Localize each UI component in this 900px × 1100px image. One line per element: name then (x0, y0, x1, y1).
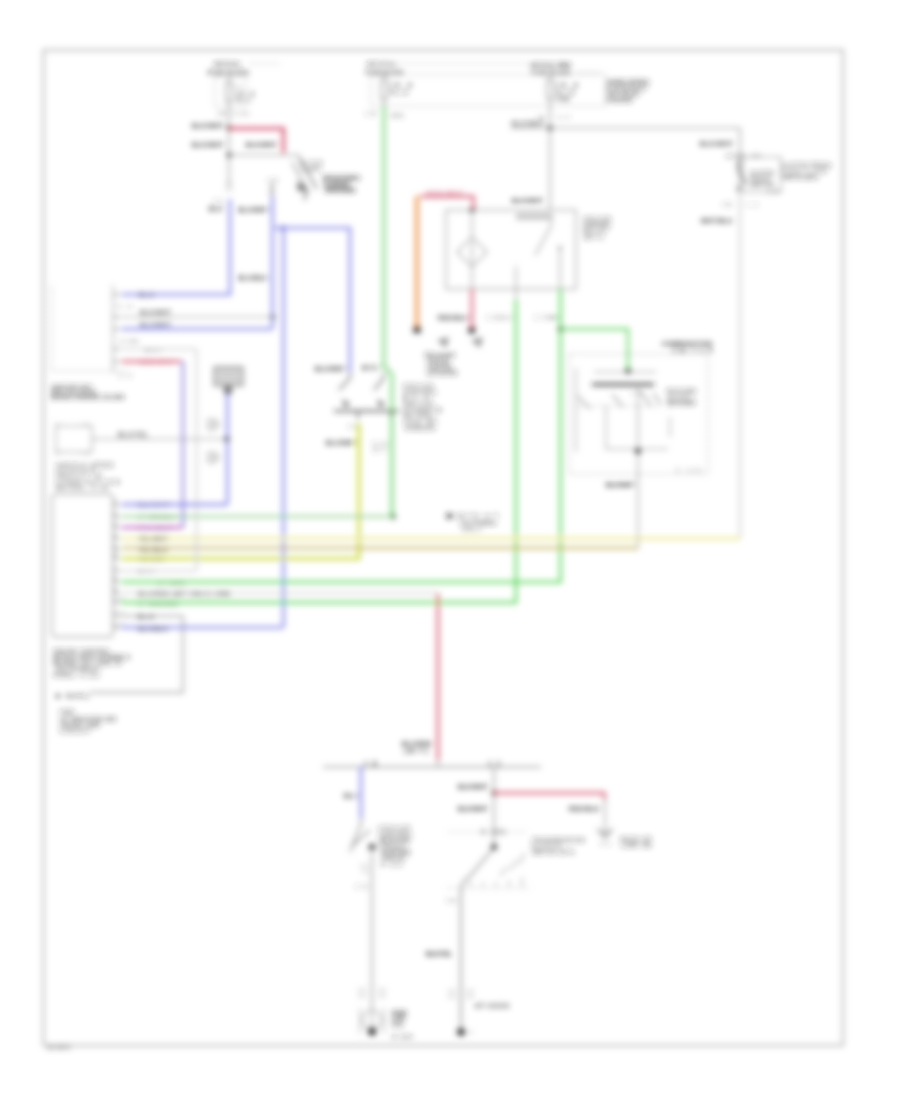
svg-text:BLK/WHT: BLK/WHT (700, 142, 733, 148)
comb switch positions dashed line (578, 405, 662, 407)
wire BLU/WHT row pin1 (122, 503, 227, 506)
junction node relay top (470, 208, 475, 213)
svg-text:BLK/WHT: BLK/WHT (192, 124, 224, 130)
svg-text:PANEL, C-111: PANEL, C-111 (53, 673, 99, 679)
svg-text:COMBINATION: COMBINATION (56, 480, 119, 486)
wire BLU/BLK row pin12 (122, 626, 283, 629)
wire BLU drop left (360, 767, 363, 818)
main switch arrows (342, 399, 351, 408)
wire drop right from bus (493, 767, 495, 846)
svg-text:C-12: C-12 (373, 441, 388, 447)
svg-text:G-204: G-204 (392, 1035, 412, 1041)
relay switch contact (535, 220, 551, 255)
wire PPL/WHT row pin3 (122, 526, 183, 528)
svg-text:1: 1 (114, 499, 117, 505)
wire WHT vertical down (196, 349, 198, 571)
svg-text:BLK/WHT: BLK/WHT (458, 785, 488, 791)
svg-text:BLK/WHT: BLK/WHT (458, 807, 488, 813)
lamp bulb symbol (360, 1008, 384, 1034)
wire BLU from diode pack down (122, 394, 228, 505)
svg-text:BLK: BLK (138, 615, 155, 621)
junction node on F3 wire (548, 126, 553, 131)
svg-text:HOT AT ALL: HOT AT ALL (214, 62, 241, 68)
module pin column ticks (113, 505, 121, 628)
comb switch top rail (594, 371, 656, 373)
svg-text:WHT: WHT (145, 348, 162, 354)
svg-text:5: 5 (114, 544, 117, 550)
comb switch contact 3 (641, 392, 651, 406)
junction node red branch bottom (492, 791, 497, 796)
wire from fuse F3 down to relay (549, 106, 551, 210)
inline ticks (360, 866, 368, 872)
junction node green branch (558, 326, 563, 331)
comb switch stub right (669, 417, 671, 437)
svg-text:BLU: BLU (209, 207, 223, 213)
svg-text:BLU/WHT: BLU/WHT (140, 323, 171, 329)
relay connector shading (516, 213, 553, 220)
wire YEL down from main switch (122, 424, 359, 559)
svg-text:BEHIND STEERING COLUMN: BEHIND STEERING COLUMN (51, 395, 124, 401)
relay coil L1 (457, 210, 487, 289)
svg-text:FUSE: FUSE (556, 97, 571, 103)
comb switch common bar (592, 383, 654, 386)
wire BLU/BLK long vertical to module (282, 228, 285, 628)
dotted lead F3 right (576, 72, 601, 74)
relay pin stub middle (515, 289, 517, 300)
svg-text:3G: 3G (723, 202, 732, 208)
svg-text:BLU/RED (M/T ONLY) 1998: BLU/RED (M/T ONLY) 1998 (138, 592, 231, 598)
wire WHT row pin7 (122, 570, 196, 572)
ground symbol right (597, 829, 613, 838)
inline connector lamp wire (358, 990, 386, 996)
svg-text:BLK/YEL: BLK/YEL (426, 952, 452, 958)
svg-text:SET/COAST: SET/COAST (667, 401, 696, 407)
svg-text:BLU/BLK: BLU/BLK (238, 276, 269, 282)
svg-text:BLU: BLU (344, 794, 358, 800)
wire WHT down from clutch switch (739, 192, 741, 538)
wire PPL vertical (182, 362, 185, 528)
junction node blue branch (280, 225, 285, 230)
dotted lead F2-F3 (385, 63, 530, 65)
main switch left contact (339, 372, 350, 390)
fuse F2 symbol (381, 75, 387, 106)
left connector bus (112, 285, 114, 373)
wire WHT row (122, 348, 197, 350)
svg-text:SWITCH: SWITCH (750, 183, 774, 189)
inhibitor selected contact (470, 850, 492, 876)
wire RED/GRN branch to stop light switch (229, 129, 284, 154)
wire YEL/WHT row to module (122, 537, 741, 540)
svg-text:BLU: BLU (139, 293, 154, 299)
svg-text:C-2: C-2 (119, 373, 131, 379)
comb switch L wire (606, 406, 668, 449)
svg-text:2C: 2C (538, 115, 546, 121)
cruise control module box (52, 494, 113, 637)
junction node stop light switch (227, 153, 232, 158)
wire down from AT indicator (371, 852, 373, 1006)
dotted lead F1 (249, 63, 279, 65)
svg-text:GRN: GRN (547, 315, 559, 321)
switch glyph below orange node (437, 337, 449, 348)
wire from fuse F1 down (228, 107, 230, 183)
wire from speed sensor (92, 438, 226, 440)
svg-text:12-34-5: 12-34-5 (47, 1045, 70, 1051)
pin at stop light output (271, 184, 273, 197)
wire down to clutch switch (739, 128, 741, 192)
combination switch dashed box (569, 354, 708, 474)
svg-text:BLK/WHT: BLK/WHT (512, 122, 544, 128)
svg-text:BLK/WHT: BLK/WHT (512, 199, 543, 205)
node RED end (469, 327, 476, 334)
relay contact dot (558, 246, 561, 249)
svg-text:COMBINATION: COMBINATION (662, 342, 712, 348)
svg-text:SWITCH (M/T): SWITCH (M/T) (782, 175, 818, 181)
junction node comb switch input (625, 368, 631, 374)
wire BLU/WHT row (122, 328, 272, 331)
vehicle speed sensor box (56, 426, 92, 452)
svg-text:No.12: No.12 (390, 90, 408, 96)
svg-text:WHT/BLU: WHT/BLU (701, 219, 733, 225)
wire BLK/WHT row to junction (122, 316, 273, 318)
main switch common bar (334, 410, 399, 412)
wire WHT row pin9 (122, 592, 438, 594)
wire GRN branch to combination switch (561, 329, 629, 370)
connector pins below F1 wire (226, 184, 232, 189)
comb switch output wire (637, 386, 639, 475)
wire RED/WHT into relay (420, 197, 474, 211)
wire BLU/WHT down from stop light switch (271, 197, 274, 329)
svg-text:C-111: C-111 (381, 862, 402, 868)
svg-text:2F 4: 2F 4 (373, 447, 386, 453)
ground tick (467, 1031, 473, 1033)
wire GRN from fuse F2 down to main switch (384, 106, 392, 516)
svg-text:BLU/BLK: BLU/BLK (138, 627, 169, 633)
comb switch contact 1 (578, 396, 590, 409)
pin tick red to bus (437, 760, 439, 767)
switch glyph below red node (471, 337, 483, 348)
svg-text:FWD: FWD (60, 710, 74, 716)
svg-text:BLK/WHT: BLK/WHT (192, 143, 224, 149)
inhibitor position stubs (470, 877, 522, 887)
svg-text:BLU/WHT: BLU/WHT (315, 367, 346, 373)
clutch switch box (743, 157, 781, 192)
comb switch left leg (575, 368, 577, 452)
svg-text:1D: 1D (268, 178, 278, 184)
svg-text:C-301: C-301 (481, 829, 506, 836)
wire RED/WHT row (122, 360, 182, 362)
svg-text:SWITCH (A/T): SWITCH (A/T) (532, 850, 574, 856)
svg-text:RESUME: RESUME (667, 389, 697, 395)
relay pin RED/BLK down (471, 289, 473, 327)
main switch right contact (374, 372, 384, 390)
svg-text:BLK/WHT: BLK/WHT (606, 483, 635, 489)
svg-text:BRAKE PRESSED): BRAKE PRESSED) (325, 188, 355, 194)
svg-text:C-9: C-9 (118, 304, 131, 310)
svg-text:C-106: C-106 (120, 339, 138, 345)
wire YEL/BLK row to module (122, 547, 639, 550)
svg-text:HOT AT ALL TIMES: HOT AT ALL TIMES (530, 63, 572, 69)
wire BLU branch to main switch (275, 228, 350, 372)
svg-text:LIGHT: LIGHT (301, 167, 321, 173)
lamp ground node (368, 1027, 376, 1035)
svg-text:2: 2 (114, 511, 117, 517)
fuse block F1 dashed box (215, 76, 246, 107)
ground wire BLK (90, 616, 183, 693)
svg-text:1C: 1C (214, 199, 224, 205)
note arrow on pin2 wire (447, 513, 455, 519)
svg-text:LT GRN/RED: LT GRN/RED (138, 602, 178, 608)
wire ORN down (415, 196, 419, 328)
diode pack body (214, 367, 243, 386)
svg-text:LAMP SW: LAMP SW (621, 843, 651, 849)
relay switch output stub (559, 250, 561, 289)
svg-text:WHT: WHT (362, 366, 381, 372)
clutch switch body (738, 160, 747, 192)
svg-text:FUSE BLOCK: FUSE BLOCK (208, 71, 250, 77)
wire RED long vertical to bottom section (437, 594, 440, 761)
svg-text:BLU/YEL: BLU/YEL (118, 433, 148, 439)
svg-text:ACTUATOR: ACTUATOR (427, 371, 457, 377)
twist symbol upper (206, 419, 220, 431)
main switch pin stubs below (358, 411, 391, 420)
AT indicator contact node (369, 844, 376, 851)
diode pack striped connector (213, 368, 244, 384)
svg-text:BLU/WHT: BLU/WHT (326, 441, 357, 447)
inline connector ticks bottom wire (448, 991, 474, 997)
comb switch wire down (637, 475, 639, 548)
wire LT GRN/BLK down from main switch (391, 418, 393, 516)
svg-text:BLK: BLK (499, 315, 513, 321)
inhibitor contact node (491, 844, 497, 850)
svg-text:C-24: C-24 (767, 189, 779, 195)
svg-text:No.18: No.18 (556, 90, 574, 96)
wire RED/BLK branch right (494, 793, 605, 800)
svg-text:BLK/WHT: BLK/WHT (140, 311, 171, 317)
diode pack pin (224, 386, 232, 394)
svg-text:C-03: C-03 (233, 111, 248, 117)
sensor box corner ticks (54, 424, 90, 454)
wire to stop light switch (229, 154, 300, 156)
svg-text:YEL/GRN: YEL/GRN (138, 557, 164, 563)
svg-text:METER), C-55: METER), C-55 (56, 486, 108, 492)
svg-text:RED/BLK: RED/BLK (569, 807, 601, 813)
wire LT GRN/RED from relay to module (122, 300, 516, 603)
twist symbol lower (206, 452, 220, 464)
cruise control relay K1 box (446, 210, 576, 289)
relay NC stub (515, 266, 517, 289)
stop light switch arrow (297, 181, 307, 192)
svg-text:GRN: GRN (390, 113, 404, 119)
svg-text:7: 7 (114, 565, 117, 571)
wire LT GRN from relay to module (122, 289, 561, 582)
junction node gray-blue (271, 315, 275, 319)
svg-text:9: 9 (114, 587, 117, 593)
svg-text:YEL/BLK: YEL/BLK (138, 548, 169, 554)
svg-text:8: 8 (114, 576, 117, 582)
svg-text:RED/WHT: RED/WHT (140, 360, 173, 366)
junction node comb switch output (635, 448, 641, 454)
svg-text:YEL/WHT: YEL/WHT (138, 537, 168, 543)
stop light switch output pin (304, 188, 306, 200)
fuse F3 symbol (547, 75, 553, 106)
comb switch contact 2 (612, 394, 623, 407)
stop light switch SW1 contact (299, 157, 317, 189)
svg-text:3: 3 (114, 522, 117, 528)
svg-text:CALIFORNIA: CALIFORNIA (460, 521, 496, 527)
junction node sensor wire (224, 436, 229, 441)
inhibitor switch dashed top (448, 831, 527, 833)
junction node green row end (390, 514, 395, 519)
left connector pin ticks (113, 295, 121, 362)
fuse F1 symbol (226, 77, 232, 107)
svg-text:6: 6 (114, 553, 117, 559)
bottom bus wire (323, 766, 541, 768)
svg-text:2E: 2E (349, 424, 359, 430)
junction node at stop light feed (227, 126, 232, 131)
wire BLU down from pins to left connector (122, 199, 230, 295)
svg-text:2B: 2B (218, 111, 227, 117)
comb switch contact 4 (653, 393, 661, 404)
inhibitor output wire (461, 876, 470, 1032)
ground node bottom (457, 1028, 465, 1036)
svg-text:LT GRN: LT GRN (158, 581, 184, 587)
svg-text:HOT AT ALL: HOT AT ALL (367, 62, 397, 68)
svg-text:DIAGRAM: DIAGRAM (606, 98, 632, 104)
svg-text:No.4: No.4 (236, 98, 250, 104)
svg-text:3E: 3E (447, 898, 457, 904)
svg-text:BLK/WHT: BLK/WHT (246, 143, 277, 149)
wire LT GRN/BLK row pin2 (122, 515, 392, 517)
svg-text:WHT: WHT (138, 569, 155, 575)
svg-text:RED/BLK: RED/BLK (438, 316, 470, 322)
svg-text:BLU/WHT: BLU/WHT (238, 208, 269, 214)
svg-text:LT GRN/BLK: LT GRN/BLK (138, 515, 176, 521)
dashed boundary left component (52, 286, 129, 371)
node ORN end (414, 326, 421, 333)
inhibitor dashed bottom (447, 887, 529, 889)
AT indicator switch contact (350, 818, 370, 852)
wire BLK row pin11 (122, 615, 183, 617)
svg-text:4: 4 (114, 533, 117, 539)
wire BLK/WHT to clutch switch (511, 127, 740, 129)
svg-text:BLU/RED: BLU/RED (402, 742, 433, 748)
joint fuse box dashed enclosure (371, 75, 606, 107)
inhibitor contact fan (500, 853, 525, 876)
